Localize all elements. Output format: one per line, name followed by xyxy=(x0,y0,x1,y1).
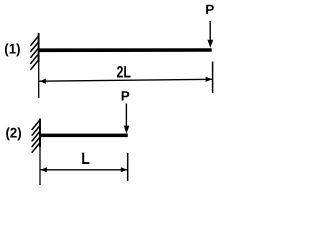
load arrow P (beam 2) xyxy=(124,104,130,134)
extension line right end beam 2 xyxy=(127,153,129,181)
fixed support wall line 1 xyxy=(38,33,40,62)
svg-text:2L: 2L xyxy=(116,63,130,81)
extension line below support 1 xyxy=(38,62,40,98)
wall hatching (support 2) xyxy=(32,120,40,152)
beam 1 xyxy=(39,48,211,52)
dimension line 2L xyxy=(39,77,212,84)
fixed support wall line 2 xyxy=(39,119,41,148)
svg-text:P: P xyxy=(121,89,130,104)
svg-text:P: P xyxy=(205,2,214,17)
extension line right end beam 1 xyxy=(212,62,214,94)
extension line below support 2 xyxy=(39,147,41,185)
beam 2 xyxy=(41,134,128,138)
svg-text:(1): (1) xyxy=(4,41,20,57)
load arrow P (beam 1) xyxy=(208,21,214,48)
dimension line L xyxy=(41,167,128,172)
svg-text:L: L xyxy=(81,150,90,168)
wall hatching (support 1) xyxy=(31,36,39,70)
svg-text:(2): (2) xyxy=(5,125,21,141)
